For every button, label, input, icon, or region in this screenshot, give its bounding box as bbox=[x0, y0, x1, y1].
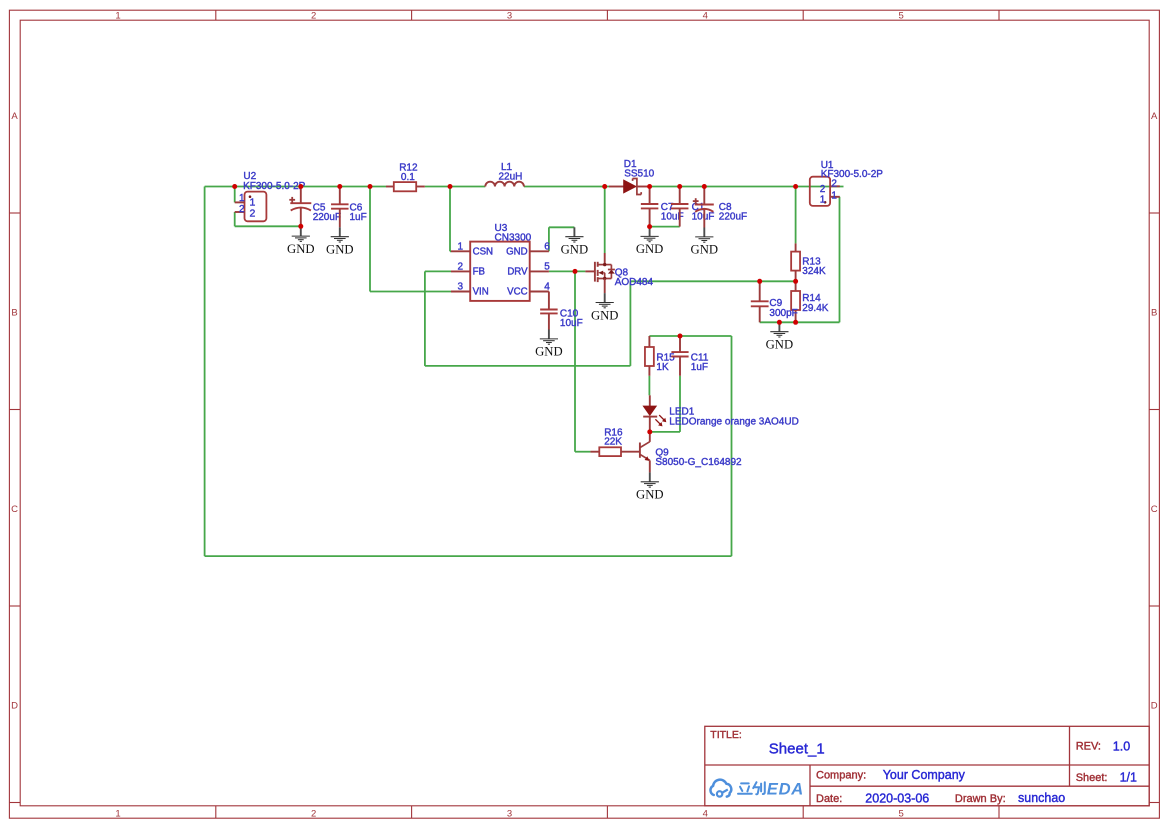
ground Q9 emitter bbox=[636, 472, 664, 501]
svg-text:220uF: 220uF bbox=[313, 212, 341, 223]
node SW D1 anode bbox=[602, 184, 607, 189]
ground C5 bbox=[287, 227, 315, 256]
svg-text:1: 1 bbox=[115, 11, 120, 22]
resistor R14 29.4K bbox=[791, 281, 800, 322]
wire right loop vertical bbox=[731, 336, 733, 556]
svg-text:Drawn By:: Drawn By: bbox=[955, 793, 1006, 805]
svg-text:Sheet:: Sheet: bbox=[1076, 772, 1108, 784]
svg-text:1/1: 1/1 bbox=[1120, 771, 1137, 785]
transistor Q9 S8050 bbox=[640, 432, 650, 473]
wire FB divider rail bbox=[630, 280, 795, 282]
svg-text:1: 1 bbox=[820, 194, 826, 205]
svg-text:GND: GND bbox=[287, 242, 315, 256]
inductor L1 22uH bbox=[485, 182, 524, 187]
wire left loop vertical bbox=[204, 187, 206, 557]
wire DRV drop to R16 bbox=[574, 271, 576, 451]
svg-text:LEDOrange orange 3AO4UD: LEDOrange orange 3AO4UD bbox=[669, 416, 799, 427]
capacitor C5 220uF electrolytic bbox=[289, 187, 311, 227]
wire divider bottom rail bbox=[760, 321, 840, 323]
resistor R13 324K bbox=[791, 243, 800, 281]
wire FB jog horizontal bbox=[425, 365, 631, 367]
svg-text:300pF: 300pF bbox=[769, 308, 797, 319]
svg-text:2: 2 bbox=[239, 204, 245, 215]
wire R16 feed bbox=[575, 451, 590, 453]
svg-text:CN3300: CN3300 bbox=[495, 232, 532, 243]
wire R15 C11 top rail bbox=[649, 335, 731, 337]
IC U3 CN3300 bbox=[451, 242, 549, 301]
ground C8 bbox=[691, 228, 719, 257]
svg-text:GND: GND bbox=[535, 345, 563, 359]
wire R15 to LED link bbox=[648, 376, 650, 396]
svg-text:AOD484: AOD484 bbox=[615, 277, 654, 288]
svg-text:B: B bbox=[1151, 307, 1157, 318]
svg-text:Company:: Company: bbox=[816, 769, 866, 781]
capacitor C10 10uF bbox=[540, 292, 558, 330]
svg-text:10uF: 10uF bbox=[692, 211, 715, 222]
node VOUT C7 bbox=[647, 184, 652, 189]
svg-text:5: 5 bbox=[898, 808, 903, 819]
wire bottom loop horizontal bbox=[205, 555, 732, 557]
wire DRV to Q8 gate bbox=[549, 270, 586, 272]
svg-text:6: 6 bbox=[544, 242, 550, 253]
wire VIN tap vertical bbox=[369, 187, 371, 292]
svg-text:5: 5 bbox=[544, 262, 550, 273]
svg-text:1uF: 1uF bbox=[350, 212, 367, 223]
svg-text:D: D bbox=[11, 700, 18, 711]
ground C6 bbox=[326, 227, 354, 256]
svg-text:3: 3 bbox=[458, 282, 464, 293]
connector U1 KF300-5.0-2P bbox=[810, 177, 840, 206]
node VIN tap bbox=[368, 184, 373, 189]
resistor R16 22K bbox=[590, 447, 640, 456]
node DRV gate bbox=[573, 269, 578, 274]
svg-text:3: 3 bbox=[507, 808, 512, 819]
svg-text:220uF: 220uF bbox=[719, 211, 747, 222]
svg-text:C: C bbox=[11, 504, 18, 515]
node CSN tap bbox=[448, 184, 453, 189]
svg-text:C: C bbox=[1151, 504, 1158, 515]
svg-text:Sheet_1: Sheet_1 bbox=[769, 741, 825, 758]
svg-text:1uF: 1uF bbox=[691, 362, 708, 373]
resistor R12 0.1 bbox=[386, 182, 425, 191]
node C5 ground bbox=[298, 224, 303, 229]
svg-text:2: 2 bbox=[831, 178, 837, 189]
capacitor C8 220uF electrolytic bbox=[693, 187, 714, 228]
mosfet Q8 AOD484 bbox=[585, 253, 615, 293]
ground C10 bbox=[535, 330, 563, 359]
wire U2 pin2 to C5 gnd bbox=[235, 225, 301, 227]
svg-text:1: 1 bbox=[458, 242, 464, 253]
node VOUT C1 bbox=[677, 184, 682, 189]
svg-text:22uH: 22uH bbox=[499, 172, 523, 183]
svg-text:VCC: VCC bbox=[507, 287, 527, 298]
wire Q8 drain riser bbox=[604, 187, 606, 254]
svg-text:TITLE:: TITLE: bbox=[710, 729, 742, 741]
wire CSN riser bbox=[449, 187, 451, 252]
svg-text:22K: 22K bbox=[604, 437, 622, 448]
svg-text:GND: GND bbox=[766, 338, 794, 352]
svg-text:GND: GND bbox=[591, 308, 619, 322]
wire top rail L1 to D1 node bbox=[524, 186, 609, 188]
svg-text:GND: GND bbox=[636, 242, 664, 256]
svg-text:SS510: SS510 bbox=[624, 168, 654, 179]
svg-text:4: 4 bbox=[544, 282, 550, 293]
svg-text:5: 5 bbox=[898, 11, 903, 22]
LED LED1 bbox=[643, 395, 666, 432]
wire C11 bottom drop bbox=[679, 376, 681, 432]
svg-text:A: A bbox=[1151, 111, 1158, 122]
svg-text:EDA: EDA bbox=[767, 779, 804, 798]
ground Q8 source bbox=[591, 293, 619, 322]
svg-text:1: 1 bbox=[115, 808, 120, 819]
svg-text:0.1: 0.1 bbox=[401, 172, 415, 183]
wire FB jog riser bbox=[629, 281, 631, 366]
wire FB horizontal bbox=[425, 270, 451, 272]
svg-text:2: 2 bbox=[311, 11, 316, 22]
wire VIN horizontal to U3 bbox=[370, 291, 451, 293]
svg-text:KF300-5.0-2P: KF300-5.0-2P bbox=[243, 181, 306, 192]
wire U2 pin1 riser bbox=[234, 187, 236, 203]
svg-text:GND: GND bbox=[691, 243, 719, 257]
svg-text:1: 1 bbox=[831, 191, 837, 202]
node C7 ground bbox=[647, 224, 652, 229]
svg-text:S8050-G_C164892: S8050-G_C164892 bbox=[655, 457, 742, 468]
svg-text:4: 4 bbox=[703, 808, 708, 819]
node VOUT C8 bbox=[702, 184, 707, 189]
wire U2 pin2 drop bbox=[234, 212, 236, 226]
svg-text:REV:: REV: bbox=[1076, 741, 1101, 753]
svg-text:Your Company: Your Company bbox=[883, 768, 966, 782]
capacitor C11 1uF bbox=[671, 336, 688, 376]
node C11 top bbox=[678, 334, 683, 339]
svg-text:GND: GND bbox=[326, 243, 354, 257]
wire U1 pin1 drop bbox=[839, 197, 841, 322]
ground C7 bbox=[636, 227, 664, 256]
svg-text:2020-03-06: 2020-03-06 bbox=[865, 791, 929, 805]
svg-text:1.0: 1.0 bbox=[1113, 739, 1130, 753]
wire FB vertical drop bbox=[424, 271, 426, 366]
svg-text:GND: GND bbox=[561, 243, 589, 257]
svg-text:GND: GND bbox=[636, 488, 664, 502]
svg-text:3: 3 bbox=[507, 11, 512, 22]
capacitor C9 300pF bbox=[751, 281, 769, 322]
node gnd rail GND bbox=[777, 320, 782, 325]
node C6 tap bbox=[337, 184, 342, 189]
ground U3 pin6 bbox=[561, 227, 589, 256]
svg-text:FB: FB bbox=[473, 267, 485, 278]
connector U2 KF300-5.0-2P bbox=[235, 192, 267, 222]
node FB divider bbox=[793, 279, 798, 284]
svg-text:D: D bbox=[1151, 700, 1158, 711]
node LED cathode bbox=[647, 429, 652, 434]
capacitor C7 10uF bbox=[641, 187, 659, 227]
svg-text:A: A bbox=[11, 111, 18, 122]
svg-text:CSN: CSN bbox=[473, 247, 493, 258]
svg-text:1: 1 bbox=[239, 193, 245, 204]
wire U3 GND pin riser bbox=[548, 227, 550, 251]
node VOUT R13 bbox=[793, 184, 798, 189]
svg-text:324K: 324K bbox=[802, 266, 826, 277]
svg-text:GND: GND bbox=[506, 247, 528, 258]
wire LED cathode link bbox=[650, 431, 680, 433]
node FB C9 bbox=[757, 279, 762, 284]
node U2 pin1 tap bbox=[232, 184, 237, 189]
svg-text:VIN: VIN bbox=[473, 287, 489, 298]
resistor R15 1K bbox=[645, 336, 654, 376]
svg-text:B: B bbox=[11, 307, 17, 318]
svg-text:2: 2 bbox=[458, 262, 464, 273]
svg-text:2: 2 bbox=[250, 207, 256, 219]
ground divider bbox=[766, 322, 794, 351]
node C5 tap bbox=[298, 184, 303, 189]
capacitor C6 1uF bbox=[331, 187, 349, 228]
svg-text:Date:: Date: bbox=[816, 793, 842, 805]
wire VOUT rail D1 to U1 bbox=[650, 186, 844, 188]
svg-text:2: 2 bbox=[820, 184, 826, 195]
svg-text:KF300-5.0-2P: KF300-5.0-2P bbox=[821, 169, 884, 180]
svg-text:DRV: DRV bbox=[507, 267, 528, 278]
svg-text:2: 2 bbox=[311, 808, 316, 819]
wire top rail R12 to L1 bbox=[425, 186, 486, 188]
wire C7 gnd link bbox=[650, 226, 680, 228]
node gnd rail R14 bbox=[793, 320, 798, 325]
wire U3 GND pin horizontal bbox=[549, 226, 575, 228]
wire VIN+ top rail left bbox=[205, 186, 386, 188]
wire R13 top drop bbox=[795, 187, 797, 244]
svg-text:sunchao: sunchao bbox=[1018, 791, 1065, 805]
capacitor C1 10uF bbox=[671, 187, 689, 227]
svg-text:1K: 1K bbox=[656, 362, 669, 373]
diode D1 SS510 schottky bbox=[609, 179, 650, 195]
svg-text:29.4K: 29.4K bbox=[802, 303, 828, 314]
svg-text:10uF: 10uF bbox=[560, 318, 583, 329]
svg-text:4: 4 bbox=[703, 11, 708, 22]
